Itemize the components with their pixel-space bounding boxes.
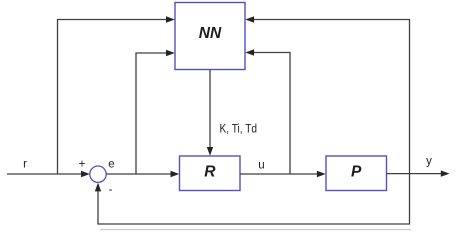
wire e tap up into NN left lower	[136, 50, 175, 174]
svg-text:+: +	[79, 159, 86, 171]
wire u from R to P	[240, 171, 326, 177]
wire u tap up into NN right lower	[245, 49, 290, 174]
label K, Ti, Td	[220, 124, 258, 136]
svg-text:u: u	[258, 160, 264, 172]
sign - (minus at feedback input)	[109, 184, 113, 196]
wire y tap up into NN right top	[245, 16, 409, 173]
svg-text:NN: NN	[199, 25, 222, 42]
node r label	[23, 159, 27, 171]
wire e from summing junction to R	[106, 171, 179, 177]
node e label	[108, 159, 114, 171]
faint underline artifact at bottom	[100, 229, 411, 231]
svg-text:e: e	[108, 159, 114, 171]
svg-text:P: P	[351, 164, 362, 181]
wire r input into summing junction	[7, 171, 90, 177]
summing junction	[90, 166, 106, 182]
block P (plant)	[326, 156, 387, 191]
wire y output from P	[387, 170, 450, 176]
svg-text:-: -	[109, 184, 113, 196]
wire NN output down into R (tuning parameters)	[207, 70, 213, 156]
node y label	[426, 156, 432, 168]
svg-text:y: y	[426, 156, 432, 168]
wire r tap up into NN left top	[58, 16, 175, 174]
sign +	[79, 159, 86, 171]
block R (PID regulator)	[180, 156, 241, 191]
svg-text:R: R	[204, 164, 216, 181]
node u label	[258, 160, 264, 172]
wire feedback y down and into summing junction bottom	[95, 174, 410, 224]
block NN (neural network)	[175, 3, 245, 70]
svg-text:K, Ti, Td: K, Ti, Td	[220, 124, 258, 136]
svg-text:r: r	[23, 159, 27, 171]
